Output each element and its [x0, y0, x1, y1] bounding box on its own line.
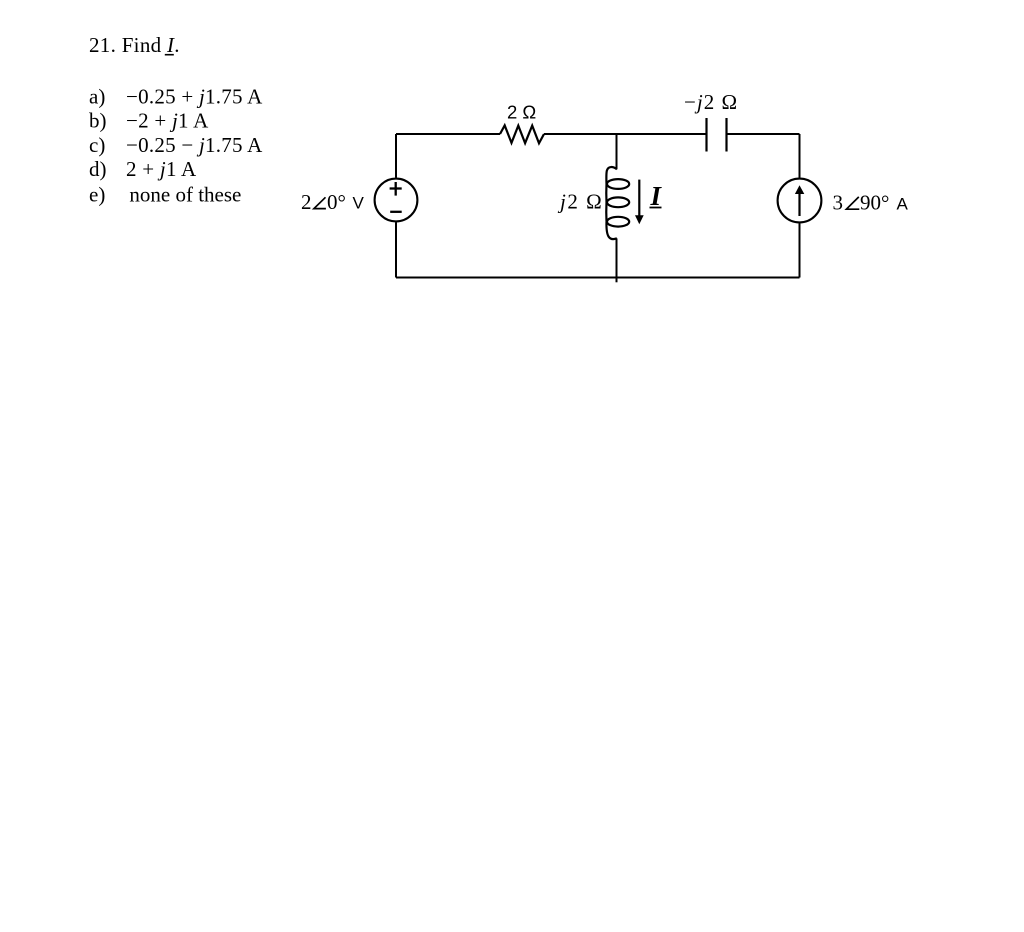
svg-text:2 + j1 A: 2 + j1 A: [126, 157, 197, 181]
svg-text:2: 2: [301, 190, 312, 214]
svg-text:3: 3: [833, 191, 844, 215]
svg-text:V: V: [353, 194, 365, 213]
svg-text:−0.25 + j1.75 A: −0.25 + j1.75 A: [126, 85, 263, 109]
svg-text:c): c): [89, 133, 105, 157]
svg-text:d): d): [89, 157, 107, 181]
svg-text:−2 + j1 A: −2 + j1 A: [126, 109, 209, 133]
svg-text:A: A: [897, 195, 909, 214]
svg-text:21. Find I.: 21. Find I.: [89, 33, 180, 57]
svg-text:−j2 Ω: −j2 Ω: [684, 90, 738, 114]
svg-text:b): b): [89, 109, 107, 133]
svg-text:e): e): [89, 182, 105, 206]
svg-text:I: I: [650, 181, 663, 211]
svg-text:0°: 0°: [327, 190, 346, 214]
svg-text:2 Ω: 2 Ω: [507, 101, 536, 122]
svg-text:−0.25 − j1.75 A: −0.25 − j1.75 A: [126, 133, 263, 157]
svg-text:none of these: none of these: [129, 182, 241, 206]
svg-text:a): a): [89, 85, 105, 109]
svg-text:j2 Ω: j2 Ω: [557, 190, 603, 214]
svg-text:90°: 90°: [860, 191, 889, 215]
